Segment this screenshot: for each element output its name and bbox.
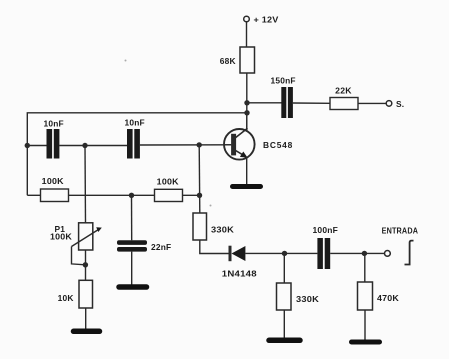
wire P1 body to node wiper (85, 250, 87, 280)
wire 330K to diode (200, 240, 229, 254)
svg-text:330K: 330K (211, 225, 234, 235)
ground 22nF (119, 284, 147, 290)
wire C1 to C2 (59, 145, 127, 147)
resistor 470K (358, 282, 373, 310)
svg-text:10nF: 10nF (44, 119, 64, 129)
wire +12V to R 68K (246, 22, 248, 47)
svg-text:100K: 100K (42, 176, 64, 186)
resistor 22K (330, 98, 358, 110)
svg-text:10nF: 10nF (125, 118, 145, 128)
svg-text:ENTRADA: ENTRADA (382, 226, 419, 236)
node wiper join (83, 262, 88, 267)
resistor 330K first (193, 213, 207, 240)
node between caps (82, 143, 87, 148)
node base junction (197, 142, 202, 147)
potentiometer P1 100K (72, 223, 102, 265)
svg-text:330K: 330K (296, 294, 319, 304)
wire collector up (246, 113, 248, 130)
capacitor C2 10nF (127, 129, 140, 159)
scan speck (210, 205, 212, 207)
wire 22nF tap down (131, 195, 133, 240)
wire 330K2 to ground (283, 310, 285, 338)
svg-text:100nF: 100nF (313, 225, 339, 235)
wire 10K to ground (85, 308, 87, 329)
svg-text:100K: 100K (50, 232, 72, 242)
ground 330K2 (269, 338, 300, 344)
wire diode to node A (245, 252, 317, 254)
wire 68K to collector node (246, 73, 248, 131)
svg-text:10K: 10K (58, 293, 74, 303)
svg-text:470K: 470K (377, 293, 399, 303)
capacitor 150nF (281, 87, 293, 118)
svg-text:150nF: 150nF (271, 76, 296, 86)
svg-text:68K: 68K (220, 56, 236, 66)
svg-text:22K: 22K (335, 85, 352, 95)
wire left rail to C1 (27, 145, 46, 147)
wire node B down to 470K (364, 253, 366, 282)
node 22nF tap (129, 193, 134, 198)
wire node A down to 330K second (283, 253, 285, 283)
wire 100nF to terminal ENTRADA (330, 252, 384, 254)
wire node between caps down to P1 (84, 146, 87, 223)
node A (282, 251, 287, 256)
resistor 100K first (41, 189, 69, 202)
ground emitter (233, 184, 261, 189)
wire 100K2 to right node (183, 194, 200, 196)
node B (362, 251, 367, 256)
wire C2 to base (140, 144, 231, 146)
svg-text:100K: 100K (157, 177, 179, 187)
resistor 100K second (155, 189, 183, 201)
svg-text:1N4148: 1N4148 (222, 268, 257, 278)
svg-text:S.: S. (396, 99, 404, 109)
capacitor C1 10nF (47, 129, 60, 159)
svg-text:BC548: BC548 (263, 140, 293, 150)
capacitor 22nF (117, 240, 147, 251)
ground 470K (352, 340, 380, 345)
terminal ENTRADA (385, 251, 391, 257)
wire emitter down (246, 157, 248, 185)
wire 150nF to R 22K (293, 102, 330, 104)
wire 22K to terminal S (358, 102, 386, 104)
scan speck (125, 60, 127, 62)
connector hook symbol (405, 241, 414, 265)
svg-text:+ 12V: + 12V (254, 15, 279, 25)
wire 100K to mid node (69, 194, 155, 196)
wire base junction down to 330K (198, 145, 201, 213)
resistor 330K second (277, 283, 292, 310)
capacitor 100nF (317, 238, 330, 269)
terminal +12V (244, 16, 250, 22)
wire 470K to ground (364, 310, 366, 340)
wire node to C 150nF (247, 102, 282, 104)
transistor Q1 BC548 (224, 128, 255, 159)
terminal S (386, 101, 392, 107)
node left rail (25, 143, 30, 148)
diode 1N4148 (230, 246, 245, 262)
node right rail mid (197, 193, 202, 198)
ground 10K (74, 329, 100, 335)
resistor 10K (79, 280, 93, 308)
resistor 68K (240, 47, 255, 73)
node collector-lower (244, 110, 249, 115)
wire feedback top (27, 113, 247, 196)
wire 22nF to ground (131, 252, 133, 285)
node collector-upper (244, 100, 249, 105)
wire left rail bottom to R 100K (27, 194, 40, 196)
svg-text:22nF: 22nF (151, 242, 171, 252)
